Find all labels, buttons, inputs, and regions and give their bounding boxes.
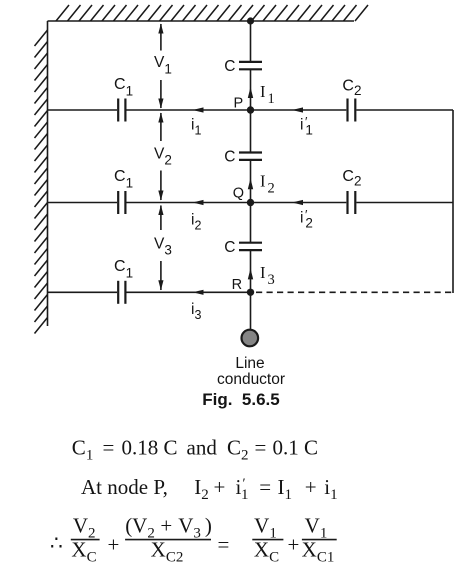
svg-text:i2: i2	[191, 211, 201, 232]
current arrow I1	[248, 87, 253, 98]
arrow i2 (left)	[193, 200, 204, 205]
svg-text:I1: I1	[260, 82, 275, 107]
V2 measurement arrow	[158, 113, 163, 201]
svg-text:i3: i3	[191, 301, 201, 322]
capacitor C2 (branch P)	[348, 99, 356, 122]
svg-text:Line: Line	[235, 355, 264, 372]
svg-text:V2: V2	[154, 146, 172, 168]
current arrow I2	[248, 178, 253, 189]
svg-text:+: +	[214, 475, 226, 499]
right rail wire	[452, 110, 454, 293]
svg-text:P: P	[234, 95, 244, 111]
formula line 2: At node P, I2 + i'1 = I1 + i1	[81, 475, 338, 503]
svg-text:Fig. 5.6.5: Fig. 5.6.5	[202, 390, 279, 409]
V1 measurement arrow	[158, 24, 163, 109]
svg-text:Q: Q	[233, 185, 244, 201]
svg-text:=: =	[255, 436, 267, 460]
svg-text:i′1: i′1	[236, 475, 249, 503]
capacitor C1 (branch Q)	[118, 191, 125, 214]
line conductor circle	[242, 330, 259, 347]
svg-text:XC2: XC2	[151, 538, 184, 566]
wire: capacitor C bottom to node R	[250, 250, 252, 292]
current arrow I3	[248, 268, 253, 279]
svg-text:C2: C2	[227, 436, 249, 464]
arrow i3 (left)	[193, 290, 204, 295]
left wall	[47, 21, 49, 326]
arrow i'1 (left)	[292, 107, 303, 112]
svg-text:XC: XC	[254, 538, 279, 566]
top wall hatching	[56, 5, 368, 21]
wire: branch Q, C2 to right rail	[356, 202, 453, 204]
svg-text:i′1: i′1	[300, 114, 313, 137]
svg-text:and: and	[187, 436, 218, 460]
capacitor C (bottom)	[239, 243, 262, 250]
wire: branch P, C1 to node P	[127, 109, 251, 111]
capacitor C (top)	[239, 62, 262, 69]
svg-text:+: +	[288, 533, 300, 557]
svg-text:∴: ∴	[50, 533, 63, 555]
top ground busbar	[48, 20, 355, 22]
wire: node Q to capacitor C bottom	[250, 203, 252, 243]
wire: branch R, C1 to node R	[127, 291, 251, 293]
wire: branch Q, wall to C1	[48, 202, 118, 204]
node Q dot	[247, 199, 254, 206]
svg-text:C2: C2	[342, 168, 361, 189]
node R dot	[247, 289, 254, 296]
svg-text:V1: V1	[154, 54, 172, 76]
wire: branch P, C2 to right rail	[356, 109, 453, 111]
capacitor C (middle)	[239, 153, 262, 160]
svg-text:XC: XC	[71, 538, 96, 566]
svg-text:I2: I2	[260, 171, 275, 196]
wire: node R to line conductor	[250, 292, 252, 329]
svg-text:0.1 C: 0.1 C	[273, 436, 319, 460]
capacitor C1 (branch R)	[118, 281, 125, 304]
svg-text:XC1: XC1	[302, 538, 335, 566]
svg-text:(V2+V3): (V2+V3)	[125, 514, 212, 542]
svg-text:i1: i1	[324, 475, 337, 503]
svg-text:C1: C1	[114, 258, 133, 280]
svg-text:R: R	[232, 277, 242, 293]
svg-text:C1: C1	[114, 76, 133, 98]
wire: branch P, node P to C2	[251, 109, 347, 111]
wire: capacitor C mid to node Q	[250, 160, 252, 203]
wire: branch Q, C1 to node Q	[127, 202, 251, 204]
svg-text:i′2: i′2	[300, 207, 313, 230]
wire: branch R, wall to C1	[48, 291, 118, 293]
svg-text:+: +	[108, 533, 120, 557]
formula line 3: therefore V2/XC + (V2+V3)/XC2 = V1/XC + V1/XC1	[50, 514, 337, 566]
left wall hatching	[35, 30, 48, 334]
svg-text:=: =	[218, 533, 230, 557]
svg-text:C: C	[224, 239, 235, 256]
svg-text:C: C	[224, 149, 235, 166]
arrow i1 (left)	[193, 107, 204, 112]
V3 measurement arrow	[158, 205, 163, 290]
svg-text:0.18 C: 0.18 C	[122, 436, 178, 460]
svg-text:At node P,: At node P,	[81, 475, 168, 499]
capacitor C2 (branch Q)	[348, 191, 356, 214]
wire: branch Q, node Q to C2	[251, 202, 347, 204]
svg-text:i1: i1	[191, 117, 201, 138]
arrow i'2 (left)	[292, 200, 303, 205]
svg-text:I3: I3	[260, 263, 275, 288]
svg-text:C1: C1	[114, 168, 133, 190]
svg-text:C2: C2	[342, 77, 361, 98]
wire: capacitor C top to node P	[250, 69, 252, 110]
node P dot	[247, 106, 254, 113]
svg-text:C: C	[224, 58, 235, 75]
capacitor C1 (branch P)	[118, 99, 125, 122]
svg-text:=: =	[103, 436, 115, 460]
svg-text:conductor: conductor	[217, 371, 285, 388]
svg-text:=: =	[259, 475, 271, 499]
dashed wire: node R to right rail	[256, 291, 453, 293]
svg-text:C1: C1	[72, 436, 94, 464]
formula line 1: C1 = 0.18 C and C2 = 0.1 C	[72, 436, 318, 464]
svg-text:+: +	[305, 475, 317, 499]
junction dot at top bus	[247, 17, 254, 24]
wire: top bus to capacitor C top	[250, 21, 252, 62]
svg-text:I2: I2	[194, 475, 209, 503]
wire: branch P, wall to C1	[48, 109, 118, 111]
wire: node P to capacitor C mid	[250, 110, 252, 153]
svg-text:V3: V3	[154, 235, 172, 257]
svg-text:I1: I1	[278, 475, 293, 503]
